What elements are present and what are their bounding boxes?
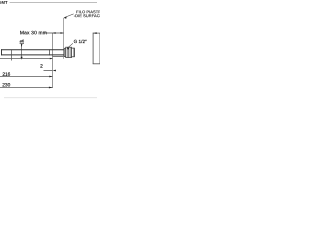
arrowhead 230	[49, 87, 53, 89]
top gray rule	[10, 2, 97, 4]
stem joint tick x=49.5	[49, 49, 51, 55]
arrowhead at x=52.5 on y=70.5 line	[53, 70, 56, 72]
probe stem outline	[1, 49, 64, 55]
Max 30 left arrowhead	[53, 32, 56, 34]
extension line die-surface plane x=63.5	[63, 18, 65, 59]
leader line from die-surface label	[64, 14, 73, 18]
callout upper arrowhead	[21, 44, 23, 47]
callout lower arrowhead	[21, 57, 23, 60]
connector dimension line y=33.1	[93, 32, 100, 34]
leader arrowhead at die-surface plane	[64, 17, 67, 19]
arrowhead 216	[49, 76, 52, 78]
svg-text:-DIE SURFACE: -DIE SURFACE	[74, 13, 100, 18]
hex end block	[72, 48, 75, 57]
svg-text:⌀6: ⌀6	[20, 38, 25, 43]
dimension line y=70.5	[44, 70, 53, 72]
G 1/2 leader line	[67, 43, 73, 48]
diameter callout leader line	[21, 44, 23, 58]
Max 30 right arrowhead	[61, 32, 64, 34]
G 1/2 leader arrowhead	[67, 47, 69, 49]
stem weld tick x=11.5	[11, 49, 13, 60]
connector bottom outline y=63.8	[93, 63, 100, 65]
shoulder block	[64, 48, 66, 56]
diameter callout underline	[20, 43, 24, 45]
svg-text:GMT: GMT	[0, 0, 8, 5]
dimension line y=56.5	[53, 56, 64, 58]
svg-text:2: 2	[40, 64, 43, 70]
dimension line 216	[0, 76, 53, 78]
faint bottom rule	[4, 97, 97, 99]
connector dashed centerline x=99.5	[99, 33, 101, 64]
svg-text:G 1/2″: G 1/2″	[74, 39, 87, 44]
dimension line 230	[0, 87, 53, 89]
arrowhead at x=52.5 on y=58.5 line	[50, 58, 53, 60]
dimension line y=58.5	[0, 58, 53, 60]
svg-text:Max 30 mm: Max 30 mm	[20, 30, 47, 36]
Max 30 dimension line	[44, 32, 64, 34]
connector arrowhead	[93, 32, 97, 34]
extension line x=52.5	[52, 33, 54, 88]
thread body	[66, 47, 72, 57]
connector outline vertical x=93.1	[92, 33, 94, 64]
